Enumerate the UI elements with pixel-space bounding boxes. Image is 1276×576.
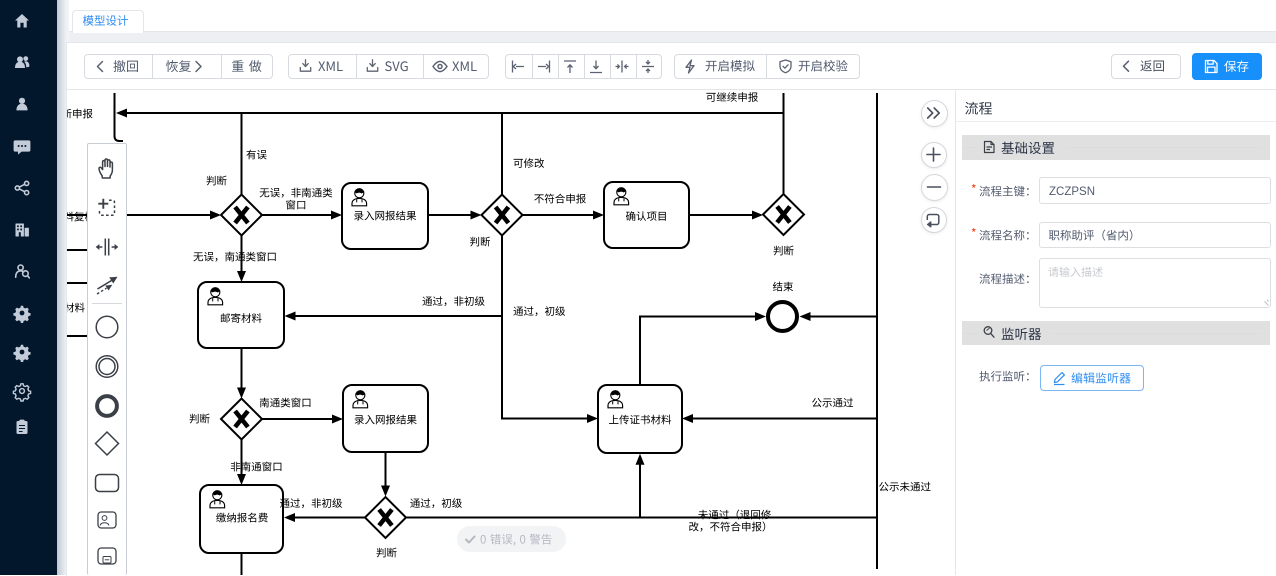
task T5 缴纳报名费: [200, 485, 283, 553]
back button: [1111, 54, 1181, 79]
label 判断 G5: [189, 414, 209, 424]
gateway G1 判断: [221, 195, 262, 236]
wire: below T5: [241, 553, 243, 576]
task T1 录入网报结果: [342, 183, 428, 249]
label 非南通窗口: [231, 462, 282, 472]
gateway G5 判断: [221, 399, 262, 440]
label task T3: [355, 415, 417, 425]
right panel separator: [955, 90, 956, 575]
task T4 邮寄材料: [198, 282, 284, 348]
button 编辑监听器: [1040, 365, 1144, 391]
label 南通类窗口: [260, 398, 311, 408]
label 判断 G4: [376, 548, 396, 558]
wire: clipped edge top-left corner: [115, 93, 124, 141]
wire: up into T6 bottom: [639, 464, 641, 518]
section header 监听器: [962, 321, 1270, 345]
label task T4: [221, 313, 262, 323]
wire: into G1 left: [67, 214, 211, 216]
wire: branch to T4 right: [295, 315, 502, 317]
wire: top long line y=113: [127, 112, 783, 114]
canvas button zoomin: [921, 142, 947, 168]
wire: v x=783 above G3: [783, 93, 785, 194]
label 判断 G3: [773, 246, 793, 256]
toolbar group xml/svg: [288, 54, 489, 79]
canvas button expand: [921, 100, 948, 127]
label 公示通过: [812, 398, 853, 408]
wire: right rail x=877: [876, 93, 878, 569]
label 通过，初级 (lower): [410, 498, 462, 508]
label 通过，非初级 (lower): [280, 498, 342, 508]
canvas button zoomout: [921, 174, 948, 201]
input 流程名称: [1039, 222, 1271, 248]
wire: long rail y=517.5: [407, 517, 878, 519]
wire: G1 bottom to T4: [241, 236, 243, 273]
label 判断 G1: [206, 176, 226, 186]
wire: T4 bottom to G5: [241, 348, 243, 388]
wire: T2 to G3: [689, 214, 753, 216]
label 公示未通过: [879, 482, 931, 492]
label 复核 (clipped): [53, 212, 94, 222]
label 申报 (clipped): [52, 109, 93, 119]
label 通过，非初级 (upper): [422, 296, 484, 306]
sidebar icons: [0, 0, 57, 575]
bpmn palette: [87, 143, 127, 575]
validation toast: [457, 526, 566, 552]
wire: G2 top up (可修改): [501, 113, 503, 195]
panel title separator: [956, 121, 1276, 122]
label task T5: [216, 513, 268, 523]
toolbar group align: [505, 54, 662, 79]
wire: G2 to T2: [523, 214, 595, 216]
wire: T3 bottom to G4: [385, 452, 387, 486]
task T3 录入网报结果: [343, 385, 428, 452]
wire: G4 to T5 right: [295, 517, 365, 519]
input text ZCZPSN: [1049, 186, 1095, 198]
label 有误: [246, 150, 266, 160]
gateway G3 判断: [763, 194, 804, 235]
label 通过，初级 (upper): [513, 306, 565, 316]
wire: rail to end event right: [810, 316, 877, 318]
label 未通过（退回修改，不符合申报）: [698, 510, 771, 520]
label task T6: [609, 415, 671, 425]
input 流程主键: [1039, 177, 1271, 204]
wire: G1 top up (有误): [241, 113, 243, 195]
task T2 确认项目: [604, 182, 689, 248]
wire: G5 bottom to T5: [241, 440, 243, 476]
wire: left fragments: [67, 250, 87, 336]
label 结束: [773, 282, 793, 292]
textarea 流程描述: [1039, 258, 1271, 308]
label 不符合申报: [534, 194, 586, 204]
label 无误，南通类窗口: [193, 252, 275, 262]
label 判断 G2: [470, 237, 490, 247]
wire: T1 to G2: [428, 214, 471, 216]
label 材料 (clipped): [44, 303, 85, 313]
label task T2: [626, 211, 666, 221]
wire: T6 top to end event: [640, 317, 756, 386]
wire: rail to T6 right: [692, 418, 877, 420]
end event 结束: [768, 302, 797, 331]
wire: G2 bottom rail down: [502, 236, 588, 419]
gateway G4 判断: [365, 497, 406, 538]
gateway G2 判断: [482, 195, 523, 236]
wire: G5 to T3: [262, 418, 333, 420]
task T6 上传证书材料: [598, 385, 682, 453]
label 无误，非南通类窗口: [260, 188, 333, 198]
wire: G1 to T1: [262, 214, 332, 216]
toolbar group undo/redo: [84, 54, 273, 79]
label task T1: [354, 211, 416, 221]
toolbar group simulate/validate: [674, 54, 860, 79]
label 可修改: [514, 158, 545, 168]
left app sidebar: [0, 0, 57, 575]
section header 基础设置: [962, 135, 1270, 160]
save button: [1192, 53, 1262, 80]
label 可继续申报: [706, 92, 758, 102]
canvas button reset: [921, 207, 947, 233]
